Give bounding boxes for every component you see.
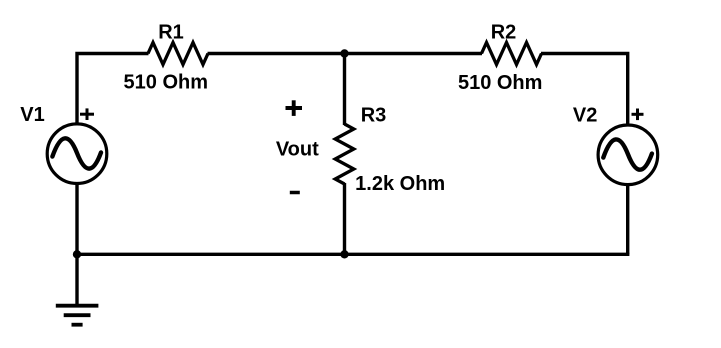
wire R3 down to bottom node B bbox=[343, 183, 346, 255]
voltage source V1 bbox=[47, 124, 107, 184]
svg-text:Vout: Vout bbox=[276, 138, 319, 160]
V2 plus polarity mark bbox=[632, 109, 644, 121]
wire top-middle R1 to R2 across node A bbox=[208, 52, 483, 55]
Vout minus sign bbox=[290, 191, 300, 195]
wire top-left from V1 up and right to R1 bbox=[77, 54, 149, 124]
svg-text:510 Ohm: 510 Ohm bbox=[458, 72, 542, 94]
V1 plus polarity mark bbox=[80, 108, 94, 120]
ground bbox=[56, 306, 99, 325]
svg-text:R1: R1 bbox=[158, 21, 184, 43]
resistor R2 bbox=[482, 43, 542, 65]
svg-text:1.2k Ohm: 1.2k Ohm bbox=[355, 173, 445, 195]
V2 sine wave bbox=[603, 139, 652, 169]
svg-text:V2: V2 bbox=[573, 105, 597, 127]
wire V1 down to bottom node bbox=[75, 184, 78, 255]
wire node A down to R3 bbox=[343, 54, 346, 126]
node A junction dot (top of R3) bbox=[340, 49, 348, 57]
svg-text:510 Ohm: 510 Ohm bbox=[124, 72, 208, 94]
wire V2 down to bottom rail bbox=[626, 186, 629, 255]
junction dot left bottom node bbox=[73, 250, 81, 258]
svg-text:V1: V1 bbox=[20, 104, 44, 126]
wire ground stem bbox=[75, 254, 78, 305]
wire bottom rail bbox=[77, 253, 629, 256]
svg-text:R2: R2 bbox=[491, 22, 517, 44]
resistor R1 bbox=[148, 43, 208, 65]
junction dot node B (bottom of R3) bbox=[340, 250, 348, 258]
voltage source V2 bbox=[598, 125, 658, 185]
wire top-right R2 to V2 bbox=[541, 54, 628, 125]
svg-text:R3: R3 bbox=[361, 105, 387, 127]
Vout plus sign bbox=[286, 100, 303, 116]
V1 sine wave bbox=[52, 138, 101, 168]
resistor R3 bbox=[335, 124, 354, 184]
